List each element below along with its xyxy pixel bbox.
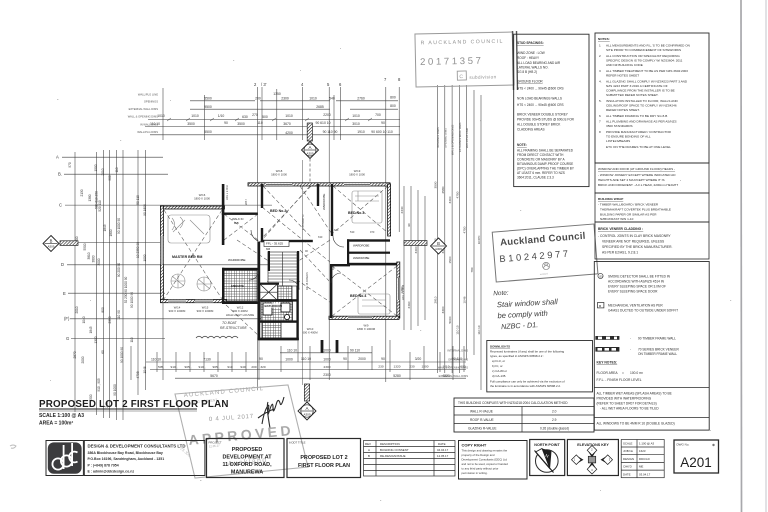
- svg-text:90 TIMBER FRAME WALL: 90 TIMBER FRAME WALL: [638, 336, 676, 340]
- svg-text:700: 700: [375, 113, 381, 117]
- svg-text:10370: 10370: [477, 235, 481, 244]
- svg-text:9500: 9500: [204, 105, 212, 109]
- svg-text:TO ENSURE BONDING OF ALL: TO ENSURE BONDING OF ALL: [606, 135, 651, 139]
- wall bed3 bottom / wardrobe top: [347, 239, 390, 241]
- svg-text:2000: 2000: [97, 258, 101, 265]
- svg-text:1910: 1910: [357, 130, 365, 134]
- svg-text:2200: 2200: [323, 113, 331, 117]
- grid vertical extension lines: [257, 87, 259, 390]
- svg-text:6-DDT TITLE: 6-DDT TITLE: [289, 441, 306, 445]
- wall bed2 bottom: [261, 240, 313, 242]
- svg-text:110 90: 110 90: [117, 310, 121, 320]
- svg-text:820: 820: [331, 265, 335, 270]
- svg-text:WARDROBE: WARDROBE: [228, 258, 246, 262]
- svg-text:NZS 4223 PART 3:2016 A CERTIFI: NZS 4223 PART 3:2016 A CERTIFICATE OF: [606, 84, 668, 88]
- svg-text:04.04.17: 04.04.17: [437, 448, 449, 452]
- svg-text:2810: 2810: [434, 296, 438, 303]
- small dim labels in plan: [305, 228, 375, 253]
- svg-text:(REFER TO SHEET DR07 FOR DETAI: (REFER TO SHEET DR07 FOR DETAILS): [597, 402, 657, 406]
- mechanical ventilation note: [598, 303, 679, 313]
- svg-text:1800 X 1000: 1800 X 1000: [271, 173, 287, 177]
- svg-text:(S): (S): [599, 274, 603, 278]
- wall top main: [248, 183, 390, 186]
- wall bottom corridor: [258, 338, 299, 341]
- svg-text:A: A: [56, 155, 59, 160]
- svg-text:1800: 1800: [109, 229, 113, 236]
- svg-text:ALL WINDOWS TO BE 4MM R 16 (DO: ALL WINDOWS TO BE 4MM R 16 (DOUBLE GLAZE…: [597, 422, 675, 426]
- svg-text:BUILDING CONSENT: BUILDING CONSENT: [380, 448, 409, 452]
- svg-text:HEIGHTS ARE SET 2 MAX/CEPT WHE: HEIGHTS ARE SET 2 MAX/CEPT WHERE IT IS: [598, 178, 665, 182]
- svg-text:REV: REV: [365, 442, 371, 446]
- svg-text:900: 900: [108, 175, 112, 181]
- svg-text:90: 90: [224, 121, 228, 125]
- top stamp right double bar: [513, 31, 514, 90]
- svg-text:PROPOSED: PROPOSED: [232, 447, 263, 453]
- svg-text:3590: 3590: [434, 181, 438, 188]
- building wrap box: [595, 193, 709, 222]
- svg-text:b) IC, or: b) IC, or: [492, 364, 503, 368]
- svg-text:C: C: [59, 203, 62, 208]
- svg-text:2000: 2000: [358, 357, 366, 361]
- svg-text:970: 970: [68, 162, 72, 168]
- svg-text:B.: B.: [58, 172, 62, 177]
- svg-text:JOB No: JOB No: [623, 449, 634, 453]
- wall ensuite/bath outline: [222, 268, 259, 270]
- svg-text:530: 530: [350, 230, 355, 234]
- stray mark left margin: [10, 445, 16, 448]
- svg-text:RE-STRUCTURE: RE-STRUCTURE: [220, 326, 247, 330]
- svg-text:c) CA-80 or: c) CA-80 or: [492, 369, 507, 373]
- window door heads box: [595, 163, 709, 193]
- svg-text:AT LEAST 6 mm. REFER TO NZS: AT LEAST 6 mm. REFER TO NZS: [517, 171, 565, 175]
- svg-text:a) IC-F, or: a) IC-F, or: [492, 359, 505, 363]
- dim row D numbers: [210, 373, 450, 378]
- svg-text:110: 110: [130, 337, 134, 342]
- svg-text:386A Blockhouse Bay Road, Bloc: 386A Blockhouse Bay Road, Blockhouse Bay: [88, 451, 163, 455]
- dwg number box: [674, 440, 719, 473]
- svg-text:permission in writing.: permission in writing.: [462, 471, 488, 475]
- svg-text:5500: 5500: [204, 130, 212, 134]
- stud spacings box: [514, 34, 589, 186]
- ffl label box: [264, 241, 289, 247]
- svg-text:THIS BUILDING COMPLIES WITH NZ: THIS BUILDING COMPLIES WITH NZS4218:2004…: [458, 401, 568, 405]
- svg-text:1: 1: [599, 44, 601, 48]
- svg-text:-: -: [630, 347, 631, 351]
- svg-text:WALL R-VALUE: WALL R-VALUE: [470, 410, 493, 414]
- section marker A top : hatched stem: [302, 123, 319, 184]
- svg-text:SG 8 B (HB 2): SG 8 B (HB 2): [517, 70, 537, 74]
- top dimension area: [128, 77, 401, 390]
- dim row 1 chain line: [190, 100, 398, 102]
- svg-text:110: 110: [257, 121, 263, 125]
- mid council stamp: [492, 224, 598, 282]
- shower tiled patch: [278, 286, 293, 300]
- svg-text:A: A: [308, 145, 311, 150]
- svg-text:GLAZING R-VALUE: GLAZING R-VALUE: [468, 427, 496, 431]
- svg-text:6M: 6M: [266, 247, 271, 251]
- svg-text:D: D: [61, 262, 64, 267]
- svg-text:2130: 2130: [80, 189, 84, 196]
- exterior wall master left: [161, 206, 164, 302]
- legend timber frame wall: [595, 336, 676, 340]
- svg-text:WINDOW AND DOOR (AT GROUND FLO: WINDOW AND DOOR (AT GROUND FLOOR) HEADS …: [598, 167, 675, 171]
- svg-text:3604:2011, CLAUSE 2.3.3: 3604:2011, CLAUSE 2.3.3: [517, 176, 554, 180]
- dim row B numbers: [151, 357, 462, 362]
- svg-text:THERMAKRAFT COVERTEK PLUS BREA: THERMAKRAFT COVERTEK PLUS BREATHABLE: [600, 208, 671, 212]
- left horizontal grid lines: [60, 157, 274, 338]
- svg-text:BED No.4: BED No.4: [350, 294, 366, 298]
- svg-text:90: 90: [259, 357, 263, 361]
- svg-text:905 ,: 905 ,: [185, 365, 192, 369]
- svg-text:EVERY SLEEPING SPACE DOOR: EVERY SLEEPING SPACE DOOR: [608, 290, 658, 294]
- svg-text:8: 8: [599, 130, 601, 134]
- svg-text:60: 60: [101, 350, 105, 354]
- svg-text:types, as specified in AS/NZS: types, as specified in AS/NZS 60598.2.2 …: [490, 354, 544, 358]
- svg-text:ENSUITE: ENSUITE: [231, 284, 244, 288]
- svg-text:TO BOAT: TO BOAT: [222, 321, 237, 325]
- svg-text:ALL CONSTRUCTION OR SPECIALIST: ALL CONSTRUCTION OR SPECIALIST REQUIRING: [606, 54, 680, 58]
- svg-text:LINTELS/BEAMS: LINTELS/BEAMS: [606, 139, 630, 143]
- svg-text:800: 800: [390, 104, 396, 108]
- wall bed4 bottom: [329, 316, 399, 319]
- svg-text:7130: 7130: [203, 358, 211, 362]
- svg-text:780: 780: [470, 267, 474, 272]
- wall stub bed4 top: [330, 264, 350, 266]
- svg-text:OPENING DIMS: OPENING DIMS: [443, 128, 447, 148]
- svg-text:A309: A309: [303, 412, 310, 416]
- svg-text:1800 X 1000: 1800 X 1000: [349, 173, 365, 177]
- svg-text:A309: A309: [306, 151, 313, 155]
- svg-text:20171357: 20171357: [420, 56, 484, 68]
- svg-text:90 1000 90: 90 1000 90: [120, 347, 124, 363]
- svg-text:4.: 4.: [599, 80, 602, 84]
- section marker B right : hatched stem: [404, 241, 427, 246]
- svg-text:This design and drawing remain: This design and drawing remains the: [462, 449, 508, 453]
- svg-text:W/17: W/17: [244, 198, 248, 205]
- master bed furniture sketch: [168, 215, 211, 291]
- svg-text:=: =: [622, 371, 624, 375]
- svg-text:100.0 m²: 100.0 m²: [630, 371, 644, 375]
- wc tiled floor: [262, 322, 281, 338]
- svg-text:BED No.3: BED No.3: [348, 211, 364, 215]
- svg-text:OPENINGS: OPENINGS: [144, 100, 158, 104]
- svg-text:1010: 1010: [157, 114, 165, 118]
- svg-text:90 200 90: 90 200 90: [117, 263, 121, 277]
- svg-text:3010: 3010: [352, 122, 360, 126]
- window labels top: [194, 169, 365, 201]
- svg-text:5280: 5280: [393, 374, 401, 378]
- svg-text:2300: 2300: [323, 373, 331, 377]
- svg-text:7: 7: [599, 120, 601, 124]
- downlights box: [487, 341, 593, 392]
- window gaps master bottom: [168, 300, 186, 303]
- svg-text:WALL/PLG LINE: WALL/PLG LINE: [138, 93, 158, 97]
- section marker B right : diamond: [431, 238, 447, 254]
- svg-text:ALL MEASUREMENTS AND R.L.'S TO: ALL MEASUREMENTS AND R.L.'S TO BE CONFIR…: [606, 44, 690, 48]
- dim row A chain: [280, 352, 372, 354]
- svg-text:B: B: [368, 454, 370, 458]
- svg-text:2870: 2870: [73, 351, 77, 358]
- svg-text:ALL DOUBLE STOREY BRICK: ALL DOUBLE STOREY BRICK: [517, 123, 561, 127]
- scan noise speckles: [50, 48, 731, 501]
- svg-text:DATE: DATE: [623, 472, 631, 476]
- svg-text:PROPOSED LOT 2 FIRST FLOOR PLA: PROPOSED LOT 2 FIRST FLOOR PLAN: [39, 399, 229, 410]
- svg-text:NORTH POINT: NORTH POINT: [534, 443, 560, 447]
- svg-text:EXTERNAL WALL DIMS: EXTERNAL WALL DIMS: [439, 374, 469, 378]
- svg-text:110 10: 110 10: [150, 122, 160, 126]
- elevations key box: [567, 440, 618, 476]
- svg-text:SITE PRIOR TO COMMENCEMENT OF: SITE PRIOR TO COMMENCEMENT OF SITEWORKS: [606, 48, 681, 52]
- floor plan: [161, 169, 406, 340]
- svg-text:90: 90: [407, 223, 411, 227]
- copyright box: [459, 441, 528, 480]
- approved stamp outline: [175, 385, 308, 478]
- approved signature: [258, 397, 284, 428]
- svg-text:ROOF R-VALUE: ROOF R-VALUE: [470, 418, 494, 422]
- svg-text:R/B: R/B: [234, 221, 239, 225]
- svg-text:2460: 2460: [407, 301, 411, 308]
- svg-text:4798: 4798: [136, 371, 140, 378]
- thick wall stubs below plan: [321, 340, 324, 353]
- svg-text:1/10: 1/10: [218, 114, 225, 118]
- svg-text:DATE: DATE: [438, 442, 446, 446]
- svg-text:1500: 1500: [422, 364, 429, 368]
- svg-text:G: G: [66, 336, 69, 341]
- dimension row labels left: [128, 93, 158, 135]
- svg-text:BRICK VENEER DOUBLE STOREY: BRICK VENEER DOUBLE STOREY: [517, 113, 569, 117]
- svg-text:COMPLIANCE FROM THE INSTALLER: COMPLIANCE FROM THE INSTALLER IS TO BE: [606, 89, 675, 93]
- svg-text:WARDROBE: WARDROBE: [353, 256, 370, 260]
- dim row 4 chain line: [145, 126, 400, 128]
- svg-text:REFER NOTES SHEET.: REFER NOTES SHEET.: [606, 108, 640, 112]
- dashed diagonals bed2: [263, 186, 311, 237]
- svg-text:AND NZ BUILDING CODE: AND NZ BUILDING CODE: [606, 63, 643, 67]
- svg-text:70 SERIES BRICK VENEER: 70 SERIES BRICK VENEER: [638, 347, 679, 351]
- svg-text:CONCRETE OR MASONRY BY A: CONCRETE OR MASONRY BY A: [517, 158, 566, 162]
- svg-text:50 110: 50 110: [136, 195, 140, 205]
- logo box: [46, 441, 83, 476]
- window gap bed4 bottom: [348, 317, 372, 319]
- svg-text:WIND ZONE : LOW: WIND ZONE : LOW: [517, 51, 545, 55]
- dim row B chain: [146, 361, 466, 363]
- svg-text:2300: 2300: [281, 97, 289, 101]
- svg-text:1800 X 1000M: 1800 X 1000M: [357, 327, 376, 331]
- svg-text:900 X 1000M: 900 X 1000M: [197, 309, 214, 313]
- svg-text:A: A: [368, 448, 370, 452]
- svg-text:MECHANICAL VENTILATION AS PE: MECHANICAL VENTILATION AS PER: [608, 304, 663, 308]
- svg-text:to any third party without pri: to any third party without prior: [462, 467, 499, 471]
- svg-text:1046: 1046: [463, 296, 467, 303]
- far right vertical chains: [438, 85, 482, 390]
- exterior wall master bottom: [161, 300, 227, 303]
- near-plan rotated numbers: [400, 206, 418, 308]
- svg-text:600 X 400M: 600 X 400M: [302, 331, 318, 335]
- svg-text:1380: 1380: [88, 194, 92, 201]
- dashed diagonals bed4: [332, 266, 397, 316]
- dim row C chain: [150, 369, 466, 371]
- right key notes column box: [594, 262, 709, 431]
- svg-text:1845: 1845: [103, 224, 107, 231]
- extension stubs below plan: [131, 303, 464, 380]
- dim row 5 numbers: [204, 130, 393, 135]
- svg-text:1623: 1623: [639, 449, 646, 453]
- svg-text:90 610 10: 90 610 10: [315, 121, 330, 125]
- svg-text:110: 110: [115, 167, 119, 172]
- svg-text:WALL & OPENING DIMS: WALL & OPENING DIMS: [438, 365, 468, 369]
- svg-text:03.04.17: 03.04.17: [639, 472, 651, 476]
- svg-text:KEY NOTES:: KEY NOTES:: [597, 361, 618, 365]
- brick veneer cladding box: [595, 222, 709, 259]
- dim row 5 chain line: [150, 134, 400, 136]
- svg-text:2340: 2340: [400, 206, 404, 213]
- svg-text:COPY RIGHT: COPY RIGHT: [462, 443, 487, 448]
- svg-text:3300: 3300: [441, 306, 445, 313]
- wall bed3 right: [388, 184, 391, 236]
- svg-text:SUBMITTED REFER NOTES SHEET.: SUBMITTED REFER NOTES SHEET.: [606, 93, 659, 97]
- ddc logo: [48, 442, 82, 473]
- svg-text:- WINDOW JOINERY EXCEPT WHERE: - WINDOW JOINERY EXCEPT WHERE INDICATED …: [598, 173, 676, 177]
- legend brick veneer wall: [595, 347, 679, 356]
- svg-text:BITUMINOUS DAMP-PROOF COURSE: BITUMINOUS DAMP-PROOF COURSE: [517, 162, 573, 166]
- svg-text:DN 16 RISERS: DN 16 RISERS: [305, 272, 309, 290]
- svg-text:SCALE: SCALE: [623, 442, 633, 446]
- svg-text:FROM DIRECT CONTACT WITH: FROM DIRECT CONTACT WITH: [517, 153, 564, 157]
- svg-text:1:100 @ A3: 1:100 @ A3: [639, 442, 655, 446]
- svg-text:90 1000 90: 90 1000 90: [117, 218, 121, 234]
- svg-text:ACCORDANCE WITH AS/NZS 4514 IN: ACCORDANCE WITH AS/NZS 4514 IN: [608, 280, 665, 284]
- stairs cross brace: [260, 284, 278, 300]
- svg-text:EVERY SLEEPING SPACE OR 3.0M O: EVERY SLEEPING SPACE OR 3.0M OF: [608, 285, 666, 289]
- svg-text:DESIGN: DESIGN: [623, 457, 634, 461]
- svg-text:GROUND FLOOR: GROUND FLOOR: [517, 80, 543, 84]
- svg-text:ALL TIMBER FRAMING TO BE DRY S: ALL TIMBER FRAMING TO BE DRY SG 8-B: [606, 114, 667, 118]
- svg-text:3670: 3670: [283, 122, 291, 126]
- dim row 4 numbers: [150, 121, 385, 126]
- svg-text:NOTE:: NOTE:: [517, 143, 527, 147]
- svg-text:EXTERNAL WALL DIMS: EXTERNAL WALL DIMS: [458, 122, 462, 152]
- dim row D chain: [175, 377, 466, 379]
- svg-text:STUD SPACINGS:: STUD SPACINGS:: [517, 41, 544, 45]
- svg-text:A201: A201: [680, 455, 712, 470]
- svg-text:90 600 10 110: 90 600 10 110: [371, 130, 393, 134]
- svg-text:ALL TIMBER WET AREAS (SPLASH: ALL TIMBER WET AREAS (SPLASH AREAS) TO B…: [597, 392, 672, 396]
- svg-text:/ 3': / 3': [261, 82, 267, 87]
- svg-text:2000: 2000: [81, 356, 85, 363]
- svg-text:2: 2: [599, 54, 601, 58]
- svg-text:1010: 1010: [191, 114, 199, 118]
- svg-text:AS PER E2/AS1, 9.2.8.1: AS PER E2/AS1, 9.2.8.1: [602, 251, 638, 255]
- svg-text:200: 200: [251, 365, 256, 369]
- svg-text:WALL & OPENING DIMS: WALL & OPENING DIMS: [128, 115, 158, 119]
- svg-text:110 10: 110 10: [477, 325, 481, 335]
- svg-text:CLADDING AREAS: CLADDING AREAS: [517, 128, 545, 132]
- svg-text:CEILING/ROOF SPACE TO COMPLY W: CEILING/ROOF SPACE TO COMPLY W/ NZS4246: [606, 104, 677, 108]
- svg-text:NZBC/FRAST WIN 1-10: NZBC/FRAST WIN 1-10: [600, 217, 634, 221]
- svg-text:90: 90: [381, 357, 385, 361]
- svg-text:2010: 2010: [75, 306, 79, 313]
- dim row 3 chain line with ticks: [148, 119, 400, 121]
- svg-text:ALL TIMBER TREATMENT TO BE AS: ALL TIMBER TREATMENT TO BE AS PER NZS 36…: [606, 69, 688, 73]
- scale table: [621, 440, 664, 478]
- left rotated dimension numbers: [68, 162, 147, 408]
- svg-text:1010: 1010: [309, 97, 317, 101]
- svg-text:11 OXFORD ROAD,: 11 OXFORD ROAD,: [222, 462, 272, 468]
- svg-text:PROVIDE 90x45 STUDS @ 600crs F: PROVIDE 90x45 STUDS @ 600crs FOR: [517, 118, 575, 122]
- svg-text:REFER NOTES SHEET: REFER NOTES SHEET: [606, 74, 639, 78]
- svg-text:90 1000 90: 90 1000 90: [130, 292, 134, 308]
- svg-text:905 ,: 905 ,: [213, 365, 220, 369]
- grid bubble numbers top: [254, 77, 401, 87]
- wall bed4 right: [397, 262, 400, 318]
- wavy revision cloud: [196, 336, 238, 338]
- right dimension area: [400, 85, 481, 390]
- svg-text:4750: 4750: [455, 191, 459, 198]
- svg-text:DEVELOPMENT AT: DEVELOPMENT AT: [222, 455, 272, 461]
- dim row 3 numbers: [157, 113, 381, 119]
- svg-text:P.O.Box 16196, Sandringham, Au: P.O.Box 16196, Sandringham, Auckland - 1…: [88, 457, 165, 461]
- svg-text:INTERNAL DIMS: INTERNAL DIMS: [447, 348, 468, 352]
- elevations key icon: [572, 446, 613, 475]
- svg-text:110 10: 110 10: [151, 358, 161, 362]
- svg-text:2.0: 2.0: [552, 410, 557, 414]
- svg-text:1380: 1380: [400, 286, 404, 293]
- svg-text:1010: 1010: [285, 114, 293, 118]
- stamp flower logo: [542, 262, 550, 270]
- svg-text:and not to be used, copied or: and not to be used, copied or handed: [462, 462, 509, 466]
- svg-text:ETC ON THE FRAMES TO BE AT ON: ETC ON THE FRAMES TO BE AT ONE LEVEL: [606, 145, 671, 149]
- svg-text:200: 200: [255, 97, 261, 101]
- wall walk-in-robe left: [222, 184, 225, 245]
- svg-text:5.: 5.: [599, 99, 602, 103]
- svg-text:52 230 90 1000 90: 52 230 90 1000 90: [124, 276, 128, 303]
- svg-text:3800: 3800: [92, 255, 96, 262]
- svg-text:10 2350 90: 10 2350 90: [136, 242, 140, 258]
- svg-text:3/20: 3/20: [415, 357, 422, 361]
- rotated wall labels right of plan: [225, 185, 405, 300]
- svg-text:2010: 2010: [101, 168, 105, 175]
- near-plan vertical chains: [404, 186, 425, 330]
- svg-text:800: 800: [101, 307, 105, 313]
- svg-text:1000: 1000: [323, 348, 331, 352]
- svg-text:5670: 5670: [210, 374, 218, 378]
- exterior wall master top: [161, 206, 225, 209]
- svg-text:B: B: [50, 239, 53, 244]
- dim row 1 numbers: [204, 92, 396, 101]
- svg-text:ROOF : HEAVY: ROOF : HEAVY: [517, 56, 540, 60]
- far right rotated chain labels: [436, 122, 469, 155]
- svg-text:2 STOREY H: 2 STOREY H: [301, 215, 305, 230]
- svg-text:4200: 4200: [285, 131, 293, 135]
- svg-text:110 10: 110 10: [287, 348, 297, 352]
- door arcs: [249, 230, 344, 290]
- svg-text:230: 230: [409, 364, 414, 368]
- wall bed2 left: [261, 184, 263, 208]
- svg-text:ALL PLUMBING AND DRAINAGE AS: ALL PLUMBING AND DRAINAGE AS PER AS/NZS: [606, 120, 677, 124]
- section marker A bottom : diamond: [298, 402, 316, 420]
- stairs treads: [268, 252, 297, 286]
- svg-text:910 ,: 910 ,: [199, 365, 206, 369]
- svg-text:SPECIFIC DESIGN IS TO COMPLY W: SPECIFIC DESIGN IS TO COMPLY W/ NZS3604:…: [606, 59, 683, 63]
- cursive note restructure: [220, 321, 247, 330]
- svg-text:OPENING DIMS: OPENING DIMS: [448, 357, 468, 361]
- svg-text:SMOKE DETECTOR SHALL BE FITTED: SMOKE DETECTOR SHALL BE FITTED IN: [608, 275, 671, 279]
- svg-text:520 110: 520 110: [98, 200, 102, 212]
- svg-text:BATHROOM: BATHROOM: [265, 304, 283, 308]
- window gap master left: [161, 236, 163, 264]
- svg-text:A309: A309: [48, 245, 55, 249]
- svg-text:ALL LOAD BEARING AND AIR: ALL LOAD BEARING AND AIR: [517, 61, 561, 65]
- wall bed4 left: [330, 265, 332, 318]
